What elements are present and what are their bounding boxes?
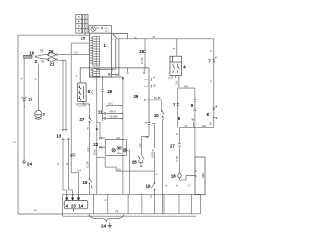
connector 26: [144, 50, 146, 53]
battery box right: [195, 157, 205, 195]
lamp 20: [48, 53, 59, 56]
svg-text:10: 10: [154, 113, 159, 118]
svg-text:R: R: [175, 133, 179, 135]
svg-text:V.R: V.R: [138, 143, 142, 147]
svg-text:16: 16: [83, 180, 88, 185]
svg-text:27: 27: [79, 117, 84, 122]
svg-text:O.C: O.C: [90, 90, 94, 95]
wire bottom table bottom line: [63, 213, 201, 215]
svg-text:E: E: [164, 184, 168, 186]
bottom connector box 4 23 14: [64, 200, 88, 208]
switch 27 left: [89, 118, 92, 123]
switch 19: [152, 183, 156, 191]
svg-text:B: B: [151, 149, 155, 151]
splice 2 on gray harness: [73, 154, 76, 157]
svg-text:V: V: [210, 49, 212, 53]
wire ign riser 6: [80, 68, 149, 123]
svg-text:B: B: [153, 76, 155, 80]
svg-text:BL.BI: BL.BI: [154, 96, 161, 100]
switch box 6: [78, 83, 86, 102]
stub ticks on bus 67.9: [128, 68, 145, 72]
wire BLBI to switch 10: [147, 100, 162, 110]
wire 129.5 riser to box30: [126, 151, 129, 195]
svg-text:E: E: [56, 163, 60, 165]
wire frame left border: [18, 35, 90, 214]
wire gray staircase to 19: [97, 158, 155, 179]
wire top bus: [117, 39, 214, 128]
block 1 device: [90, 33, 112, 77]
wire long vertical 162.7: [162, 120, 164, 214]
wire 149 chain to 28: [142, 126, 150, 156]
svg-text:BI: BI: [153, 84, 156, 88]
wire 154.5 drop: [152, 123, 155, 213]
svg-text:27: 27: [170, 143, 175, 148]
arrows into bottom box: [66, 194, 80, 200]
wire branch to 22: [97, 123, 100, 137]
ground symbol 24: [108, 223, 112, 228]
brace bottom: [89, 215, 124, 222]
stub connector on 149: [145, 78, 152, 87]
svg-text:GR: GR: [86, 147, 90, 151]
stub 8 on horizontal: [193, 122, 195, 128]
symbol antenna 12: [22, 97, 27, 101]
block 1 pin color marks: [90, 38, 92, 75]
connector 11 lower: [103, 117, 123, 119]
connector 7: [177, 103, 179, 106]
wire BC line: [107, 106, 123, 107]
wire center vertical 122.9: [122, 77, 124, 194]
svg-text:E: E: [187, 184, 191, 186]
svg-text:14: 14: [78, 203, 83, 208]
svg-text:E: E: [104, 199, 108, 201]
connector pair pins to riser: [108, 68, 113, 75]
svg-text:GR: GR: [202, 124, 206, 128]
wire frame bottom left: [18, 213, 63, 215]
connector 11 upper: [103, 112, 123, 114]
connector break wires 13: [62, 130, 71, 140]
svg-text:3: 3: [43, 112, 45, 116]
wire 179.4 chain down: [178, 128, 180, 173]
switch 16: [89, 179, 92, 189]
connector pair after plug: [35, 56, 37, 58]
svg-text:B: B: [151, 195, 153, 199]
svg-text:E.GR: E.GR: [86, 161, 90, 167]
svg-text:AR: AR: [116, 136, 120, 140]
svg-text:2: 2: [70, 153, 72, 157]
svg-text:NE: NE: [41, 59, 45, 63]
wire ladder col B down: [102, 76, 104, 121]
wire 24 drop from plug: [23, 58, 25, 159]
svg-text:C.A: C.A: [116, 73, 121, 77]
svg-text:21: 21: [50, 62, 55, 67]
box 30 lamps: [105, 139, 127, 155]
battery terminals: [195, 171, 197, 176]
svg-text:24: 24: [101, 224, 106, 229]
stub 22 upper: [99, 137, 105, 139]
svg-text:23: 23: [71, 203, 76, 208]
bottom table verticals: [63, 194, 201, 216]
svg-text:VE.BM: VE.BM: [109, 115, 117, 119]
wire fusebox to frame line: [84, 33, 86, 35]
svg-text:GA: GA: [175, 81, 179, 85]
connector 8 right bus: [213, 106, 217, 118]
svg-text:B.NE: B.NE: [140, 57, 144, 63]
wire horn drop: [37, 64, 39, 111]
svg-text:20: 20: [49, 49, 54, 54]
svg-text:12: 12: [28, 98, 32, 102]
svg-text:E: E: [34, 78, 38, 80]
arrow end 24: [23, 160, 26, 164]
svg-text:CV: CV: [74, 50, 78, 54]
svg-text:E: E: [175, 184, 179, 186]
svg-text:V: V: [75, 75, 79, 77]
wire block1 top bus link: [96, 34, 127, 75]
svg-text:VT: VT: [184, 124, 188, 128]
svg-text:B: B: [144, 98, 146, 102]
svg-text:26: 26: [139, 49, 144, 54]
svg-text:28: 28: [132, 160, 137, 165]
wire ladder col A down: [96, 76, 98, 194]
svg-text:AR.N: AR.N: [109, 110, 115, 114]
wire box4 top to bus: [176, 39, 178, 56]
wire 6 to bottom chain: [84, 102, 90, 195]
svg-text:FK: FK: [115, 210, 119, 214]
wire bottom second line: [63, 215, 196, 217]
svg-text:25: 25: [107, 89, 112, 94]
wire lamp21 tee down: [58, 60, 66, 129]
svg-text:M: M: [153, 35, 155, 39]
wire box4 bottom leads: [168, 76, 195, 128]
svg-text:22: 22: [93, 142, 98, 147]
connector 9 pair: [194, 99, 196, 111]
connector 16 plug: [24, 55, 33, 58]
svg-text:24: 24: [27, 162, 32, 167]
ignition switch box: [89, 26, 112, 34]
svg-text:E: E: [13, 141, 17, 143]
svg-text:B.NE: B.NE: [93, 149, 97, 155]
fuse 18: [178, 174, 195, 180]
svg-text:15: 15: [81, 37, 85, 41]
connector on 149: [145, 122, 150, 125]
connector 7 right bus: [213, 57, 217, 61]
svg-text:13: 13: [56, 134, 61, 139]
switch 28: [139, 156, 144, 166]
svg-text:E: E: [172, 47, 176, 49]
svg-text:N: N: [147, 185, 149, 189]
svg-text:B.C: B.C: [109, 102, 113, 106]
svg-text:E: E: [20, 77, 24, 79]
svg-text:P.N: P.N: [184, 84, 188, 88]
wire bottom table top line: [63, 193, 201, 195]
svg-text:11: 11: [98, 109, 103, 114]
svg-text:16: 16: [29, 50, 34, 55]
wire 26 drop from bus: [144, 39, 146, 68]
svg-text:E: E: [87, 127, 89, 131]
svg-text:GA: GA: [117, 151, 121, 155]
svg-text:12V: 12V: [201, 173, 205, 178]
lamp 21: [48, 58, 59, 61]
svg-text:GA: GA: [117, 167, 121, 171]
svg-text:18: 18: [171, 174, 176, 179]
svg-text:E: E: [65, 163, 69, 165]
svg-text:GR: GR: [145, 135, 149, 139]
horn 3: [35, 110, 42, 119]
svg-text:NE: NE: [40, 48, 44, 52]
svg-text:C.YB: C.YB: [175, 156, 179, 162]
caption under 6: [77, 104, 89, 106]
tick under bottom box: [73, 209, 75, 212]
fuse box left stack: [76, 15, 82, 33]
wire lamp20 to block1: [58, 54, 89, 56]
wire block1 bottom CA line: [90, 77, 124, 79]
wire 9 drop: [194, 88, 196, 157]
stub 22 lower: [99, 146, 105, 148]
relay box 4: [170, 56, 181, 75]
connector 25: [101, 89, 103, 92]
wire plug to lamps: [37, 55, 47, 60]
block 1 pin ladder: [93, 37, 100, 77]
svg-text:GR: GR: [209, 121, 213, 125]
fuse box right stack: [83, 15, 88, 33]
svg-text:29: 29: [133, 94, 138, 99]
wire harness gray riser: [71, 43, 89, 194]
wire 13 down legs: [63, 140, 73, 195]
svg-text:30: 30: [117, 146, 122, 151]
connector 27 right: [178, 143, 180, 146]
switch 10: [161, 110, 164, 119]
svg-text:M: M: [134, 36, 136, 40]
svg-text:CA: CA: [77, 169, 81, 173]
svg-text:GR.R: GR.R: [151, 152, 155, 159]
